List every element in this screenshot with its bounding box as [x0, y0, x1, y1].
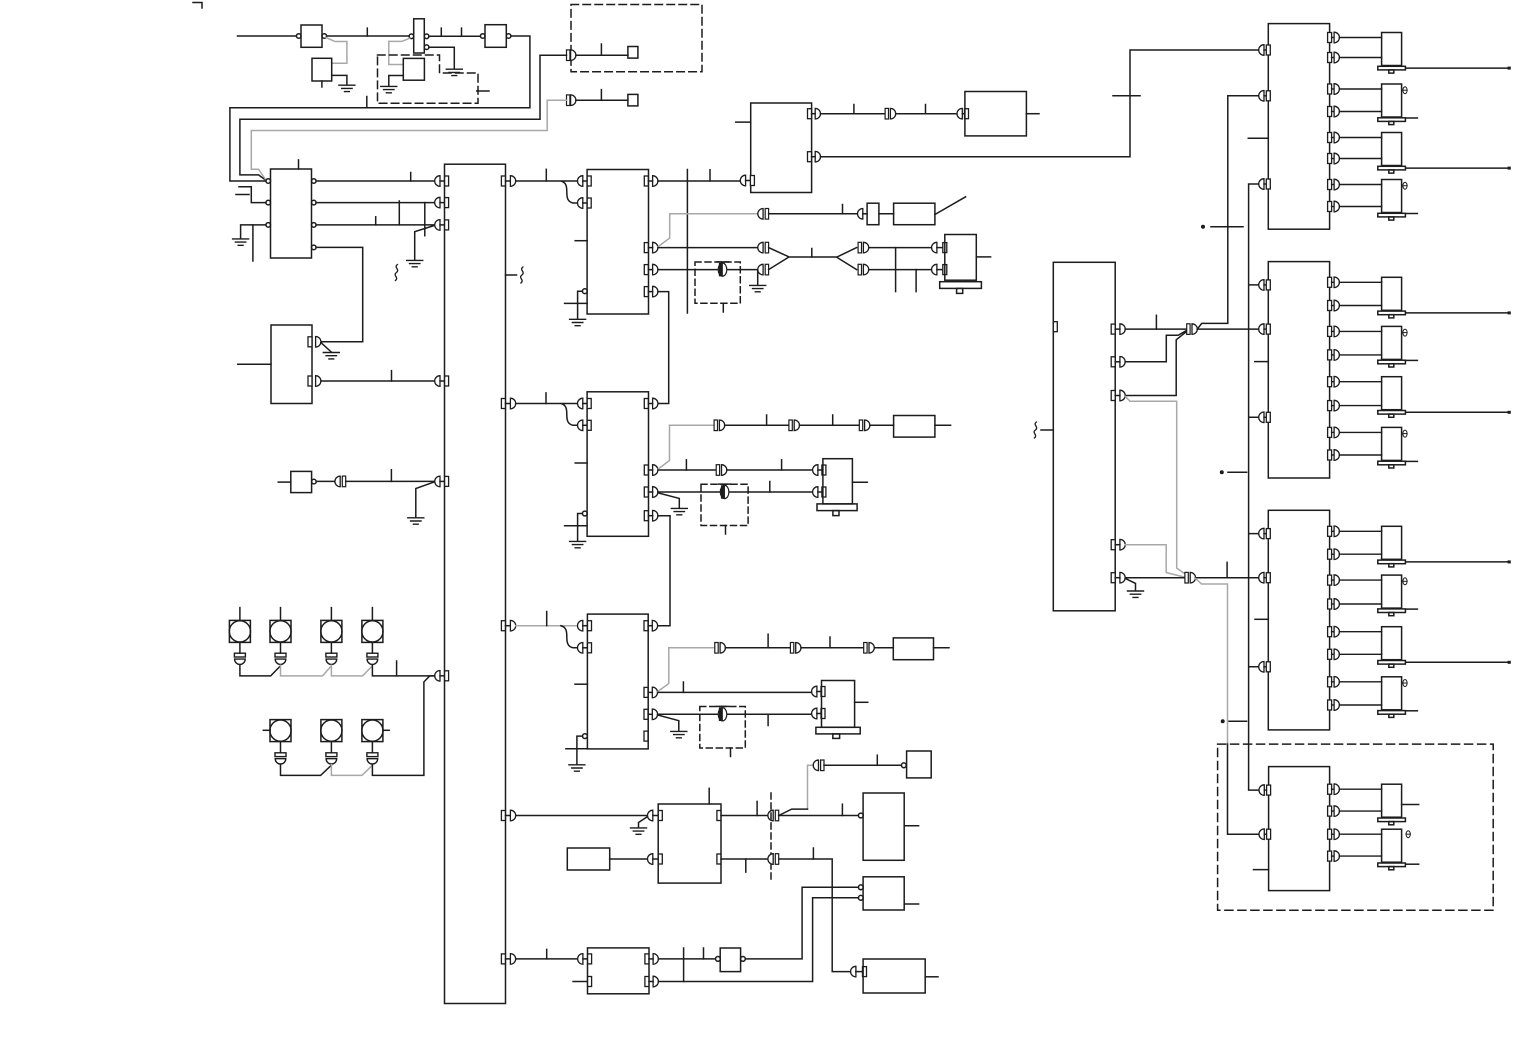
wire U5 analog ground: [565, 514, 588, 542]
driver array U7: [1053, 262, 1125, 611]
net stub: [925, 105, 927, 114]
net stub: [767, 634, 769, 648]
wire MCU out1 to bus (row1): [316, 180, 435, 182]
motor M3: [1378, 133, 1511, 174]
motor M10: [1378, 575, 1418, 616]
wire U5 out4 to U6: [658, 516, 670, 626]
net stub: [545, 169, 547, 181]
connector plug J15: [768, 854, 779, 865]
wire U10 out2: [721, 858, 769, 860]
bus right pin to U5: [501, 398, 515, 409]
wire U1B to U1C: [429, 35, 481, 37]
net stub: [600, 44, 602, 55]
U3 left stub: [238, 363, 271, 365]
wire A5 bottom stub: [321, 81, 323, 87]
net stub: [391, 371, 393, 381]
wire U4 out1 to U9: [658, 180, 740, 182]
wire lamp row2 riser to bus: [372, 676, 434, 776]
wire CLK2 gray branch down to U15 (gray): [1196, 578, 1228, 744]
wire MCU pin2 stub: [239, 187, 266, 203]
codec U5: [575, 392, 658, 537]
wire U9 out2 to U12 (net SER1): [821, 50, 1259, 157]
sensor S1: [858, 197, 966, 225]
sensor box B3: [291, 471, 316, 492]
U12 input pins: [1259, 45, 1271, 190]
net stub: [545, 393, 547, 404]
wire J14 to B6: [779, 815, 858, 817]
wire U7 out2 into plug: [1125, 331, 1186, 362]
net stub: [546, 612, 548, 626]
net stub: [600, 90, 602, 101]
net stub: [842, 205, 844, 214]
wire ground tap: [639, 816, 649, 827]
net stub: [685, 460, 687, 470]
net stub MCU top: [298, 160, 300, 169]
wire U1B out2 to ground: [429, 47, 454, 69]
net stub: [703, 948, 705, 959]
wire U11 out2 to B8 in2: [658, 898, 858, 982]
bus right pin row1: [501, 176, 515, 187]
wire MCU out2 to bus (row2): [316, 202, 435, 204]
dashed box with resonator Y3: [700, 706, 746, 756]
wire J5 to sensor: [769, 213, 858, 215]
wire row3 ground tap: [415, 226, 434, 260]
net stub U10 top: [708, 788, 710, 804]
wire U7 out3 gray branch (gray): [1125, 396, 1185, 574]
ground: [671, 508, 687, 514]
connector plug J14: [768, 810, 779, 821]
net stub: [781, 460, 783, 470]
bus left pin row1: [435, 176, 449, 187]
ground: [407, 260, 423, 266]
corner mark top-left: [193, 3, 202, 9]
continuation tilde right of bus: [506, 267, 524, 283]
wire J2 to terminator: [576, 99, 628, 101]
ground: [671, 731, 687, 737]
wire CLK1 branch up to U12: [1197, 96, 1258, 329]
bus right pin to U10: [501, 810, 515, 821]
ground: [381, 86, 397, 92]
wire U6 out3 ground tap: [658, 715, 679, 731]
motor M1: [1378, 33, 1511, 74]
wire B-box to ground: [389, 76, 404, 87]
ground: [1128, 591, 1144, 597]
net stub: [876, 755, 878, 765]
wire U3 out1 ground tap: [321, 343, 331, 352]
wire row ground tap: [416, 482, 434, 517]
backplane bus J4: [445, 164, 506, 1003]
wire J15 to B9: [779, 859, 851, 972]
trigger box B4: [901, 751, 931, 778]
net stub: [853, 105, 855, 114]
net stub: [1113, 95, 1140, 97]
lamp LP3: [321, 608, 342, 665]
codec U4: [575, 170, 658, 315]
terminator square: [628, 47, 638, 59]
lamp LP4: [362, 608, 383, 665]
motor M4: [1378, 180, 1418, 221]
wire input to U1A: [238, 35, 297, 37]
relay K1: [932, 235, 991, 294]
net stub: [424, 203, 426, 236]
wire U4 out3 through crystal box: [658, 269, 758, 271]
lamp LP7: [362, 720, 389, 764]
wire U4 analog ground: [565, 291, 588, 319]
ground: [570, 541, 586, 547]
wire lamp row2 segment 2 (gray): [331, 765, 372, 776]
bus left pin B3 row: [435, 476, 449, 487]
motor M14: [1378, 829, 1419, 870]
codec U6: [575, 614, 658, 749]
U12 output pins: [1328, 32, 1382, 212]
connector plug J2: [567, 95, 576, 106]
terminator square: [628, 94, 638, 106]
ground: [570, 319, 586, 325]
wire U1A to A5 (gray): [326, 38, 347, 64]
wire inverter to B8 in1: [745, 887, 858, 959]
buffer U1B: [409, 19, 429, 53]
wire U7 out3 into plug: [1125, 332, 1186, 396]
power module B2: [957, 92, 1039, 136]
ground: [339, 85, 355, 91]
wire J17 to U13 (net CLK1): [1197, 328, 1258, 330]
dashed enclosure D4: [1218, 744, 1494, 910]
wire J16 to B2: [896, 113, 957, 115]
lamp LP5: [263, 720, 291, 764]
wire J7 row: [800, 424, 859, 426]
wire lamp row1 segment 1: [240, 665, 281, 676]
wire MCU pin3 to ground: [241, 225, 266, 239]
buffer U1A: [296, 25, 326, 47]
connector plug J3: [335, 476, 346, 487]
wire U5 out3 through crystal box to K2: [658, 491, 813, 493]
relay K2: [813, 459, 868, 516]
wire U6 out3 through crystal box to K3: [658, 713, 812, 715]
wire U10 out1 to plug: [721, 815, 769, 817]
net stub: [895, 248, 897, 292]
U15 input pins: [1259, 785, 1271, 840]
connector plug J12: [864, 643, 875, 654]
wire lamp row1 segment 3 (gray): [331, 665, 372, 676]
wire U7 out5 ground tap: [1125, 578, 1135, 590]
bus right pin to U6: [501, 620, 515, 631]
wire U6 out2 to relay K3: [658, 691, 812, 693]
wire J6 row: [725, 424, 789, 426]
net stub: [390, 470, 392, 482]
continuation tilde left: [395, 265, 398, 281]
net stub: [546, 949, 548, 959]
U14 output pins: [1328, 526, 1382, 710]
bus left pin row3: [435, 220, 449, 231]
connector plug J5: [758, 209, 769, 220]
net stub: [366, 97, 368, 108]
net stub: [236, 194, 249, 196]
net stub: [1226, 562, 1228, 577]
bus right pin to U11: [501, 954, 515, 965]
wire J13 to trigger box: [824, 764, 901, 766]
connector plug J16: [885, 108, 896, 119]
wire U7 out1 to plug: [1125, 328, 1186, 330]
net stub: [915, 270, 917, 292]
wire U4 out2 to twisted pair: [658, 247, 758, 249]
wire B3 to plug: [316, 480, 335, 482]
motor M2: [1378, 84, 1418, 125]
net stub: [812, 848, 814, 859]
resistor RB5: [567, 848, 647, 870]
net stub: [461, 28, 463, 36]
connector plug J1: [567, 50, 576, 61]
driver bank U15: [1254, 767, 1330, 891]
interface U11: [573, 948, 658, 994]
buffer U1C: [480, 25, 511, 48]
net stub: [410, 173, 412, 182]
wire U9 out1 to plug: [821, 113, 885, 115]
lamp LP1: [229, 608, 250, 665]
wire U7 out5 to plug2: [1125, 577, 1184, 579]
bus left pin U3 row: [435, 376, 449, 387]
net stub below pin3: [252, 225, 254, 261]
wire J3 to bus: [346, 480, 435, 482]
driver bank U12: [1248, 24, 1329, 230]
B3 left stub: [278, 481, 291, 483]
connector plug J18: [1185, 572, 1196, 583]
resistor pack RB2: [870, 416, 951, 438]
wire U3 out2 to bus: [321, 380, 435, 382]
net stub: [841, 804, 843, 815]
monitor box B6: [858, 793, 918, 860]
dashed enclosure D1: [378, 55, 479, 103]
wire U1B to B-box (gray): [389, 38, 410, 64]
wire U5 out2 to relay K2: [658, 469, 716, 471]
wire U5 gray feed (gray): [658, 425, 714, 469]
driver A5: [312, 58, 332, 81]
wire lamp row2 segment 1: [281, 764, 332, 775]
U14 input pins: [1259, 528, 1271, 672]
motor M12: [1378, 677, 1418, 718]
continuation tilde at U7: [1034, 422, 1053, 438]
wire U1C to MCU pin1 (net A): [230, 36, 530, 181]
wire U1A to U1B: [327, 35, 410, 37]
logic box B8: [858, 877, 918, 910]
wire J2 feed gray (net C): [251, 100, 566, 180]
connector plug J13: [813, 760, 824, 771]
net stub: [375, 217, 377, 225]
ground: [408, 518, 424, 524]
driver bank U14: [1255, 510, 1330, 730]
net stub: [829, 637, 831, 648]
wire U4 out4 to U5: [658, 292, 669, 404]
wire J10 row: [725, 647, 790, 649]
wire U4 gray feed to plug row (gray): [658, 214, 761, 247]
net stub: [366, 28, 368, 36]
net stub: [440, 28, 442, 36]
U13 input pins: [1259, 280, 1271, 423]
lamp LP2: [270, 608, 291, 665]
motor M11: [1378, 627, 1511, 668]
twisted pair wire: [769, 248, 857, 270]
resistor pack RB3: [874, 638, 949, 660]
ground: [233, 239, 249, 245]
box B in dashed region: [403, 58, 424, 80]
U13 output pins: [1328, 277, 1382, 460]
motor M6: [1378, 326, 1418, 367]
net stub: [811, 249, 813, 258]
wire A5 to ground: [332, 75, 347, 84]
wire U11 out1 to inverter: [658, 958, 715, 960]
wire lamp row1 to bus: [372, 665, 434, 676]
output box B9: [851, 959, 938, 993]
wire bus to U11: [516, 958, 578, 960]
connector plug J10: [715, 643, 726, 654]
wire bus to U4 with input fork: [516, 181, 578, 203]
ground: [750, 285, 766, 291]
dashed box with resonator Y1: [695, 262, 740, 312]
net stub: [398, 201, 400, 225]
wire U7 out4 gray into plug2 (gray): [1125, 545, 1184, 578]
connector plug J6: [714, 420, 725, 431]
net stub: [767, 714, 769, 725]
net stub: [709, 170, 711, 181]
motor M5: [1378, 277, 1511, 318]
junction dot with stub: [1220, 470, 1247, 474]
U3 pin out2: [308, 376, 321, 387]
wires to relay K1: [869, 248, 932, 270]
net stub: [766, 415, 768, 425]
motor M8: [1378, 427, 1418, 468]
wire bus to U6 (gray) with input fork: [516, 625, 578, 627]
net stub: [682, 682, 684, 692]
wire J14 branch to coil feed: [779, 809, 808, 815]
wire J18 to U14 (net CLK2): [1196, 577, 1259, 579]
wire J11 row: [801, 647, 863, 649]
motor M7: [1378, 377, 1511, 418]
dashed box with resonator Y2: [701, 484, 748, 534]
supervisor U3: [271, 325, 312, 404]
connector plug J11: [790, 643, 801, 654]
wire J1 to terminator: [576, 54, 628, 56]
connector plug J8: [859, 420, 870, 431]
ground: [446, 69, 462, 75]
net stub on D1 edge: [477, 90, 489, 92]
net stub: [683, 948, 685, 982]
motor M9: [1378, 526, 1511, 567]
relay K3: [812, 681, 868, 739]
wire U6 gray feed (gray): [658, 648, 715, 692]
net stub: [769, 482, 771, 493]
twisted pair left plugs: [758, 242, 769, 275]
wire lamp row1 segment 2 (gray): [281, 665, 332, 676]
U15 output pins: [1328, 784, 1382, 861]
ground: [569, 765, 585, 771]
junction dot with stub: [1201, 225, 1243, 229]
wire bus to U10: [516, 815, 648, 817]
comms module U9: [736, 103, 821, 193]
wire CLK2 to U15 lower: [1228, 744, 1259, 834]
ground below plug: [757, 271, 759, 285]
bus left pin lamp row: [435, 671, 449, 682]
ground: [631, 828, 647, 834]
net stub: [1155, 315, 1157, 329]
lamp LP6: [321, 720, 342, 764]
net stub: [756, 801, 758, 815]
junction dot with stub: [1221, 719, 1247, 723]
coil row feed (gray): [808, 765, 814, 809]
dashed enclosure D2: [571, 5, 702, 72]
net stub: [832, 415, 834, 425]
connector plug J7: [789, 420, 800, 431]
net stub long: [686, 170, 688, 314]
driver bank U13: [1255, 262, 1330, 478]
bus left pin row2: [435, 197, 449, 208]
MCU U2: [266, 169, 316, 258]
driver U10: [648, 804, 722, 883]
wire MCU pin4 to U3 out: [316, 247, 363, 341]
inverter G1: [716, 948, 746, 972]
wire MCU out3 to bus (row3): [316, 224, 435, 226]
wire J9 to K2: [727, 469, 813, 471]
input fork bracket: [561, 626, 578, 648]
dashed disconnect line: [770, 793, 772, 881]
wire bus to U5 with input fork: [516, 404, 578, 426]
U3 pin out1: [308, 337, 321, 348]
ground: [323, 353, 339, 359]
motor M13: [1378, 784, 1419, 825]
wire U6 analog ground: [566, 736, 588, 764]
wire enable trunk (net EN): [1249, 184, 1259, 790]
connector plug J9: [716, 465, 727, 476]
twisted pair right plugs: [858, 242, 869, 275]
connector plug J17: [1187, 324, 1198, 335]
wire J1 feed (net B): [240, 55, 567, 180]
net stub: [396, 661, 398, 676]
wire U5 out3 ground tap: [658, 493, 679, 508]
net stub: [745, 859, 747, 872]
